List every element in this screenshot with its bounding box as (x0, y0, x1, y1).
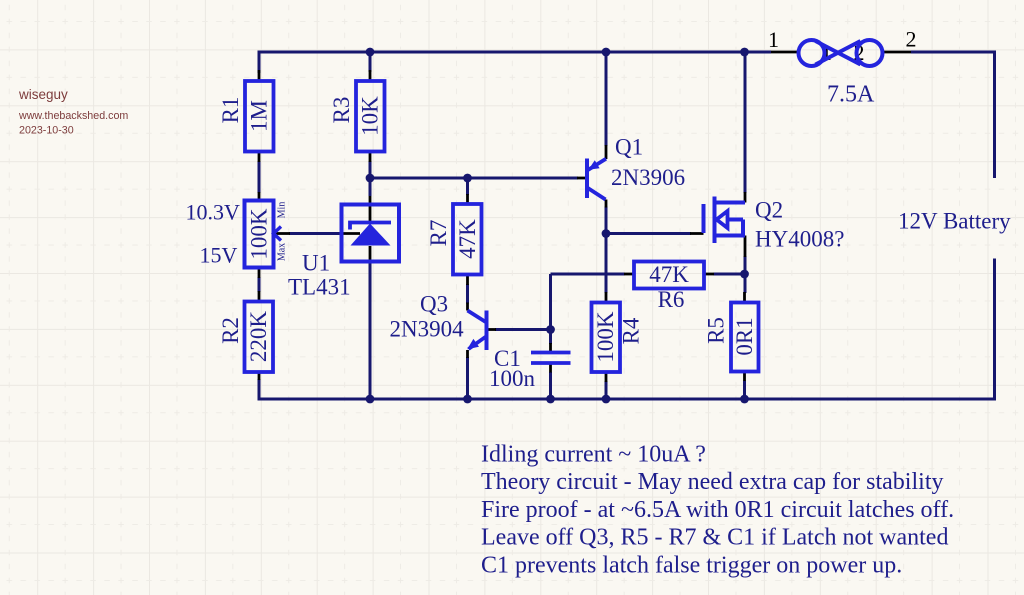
svg-text:R2: R2 (218, 317, 243, 344)
svg-text:U1: U1 (302, 251, 330, 276)
capacitor C1 (531, 353, 571, 364)
wire R1 bottom to pot top (258, 161, 261, 193)
wire top rail (259, 52, 771, 73)
wire U1 column top (369, 52, 372, 72)
svg-text:R7: R7 (426, 220, 451, 247)
wire C1 bottom to rail (549, 372, 552, 399)
pin stub R3 bottom (369, 152, 372, 163)
wire U1 bottom to bottom rail (369, 261, 372, 399)
svg-text:2023-10-30: 2023-10-30 (19, 125, 74, 137)
svg-text:47K: 47K (649, 262, 689, 287)
pin stub Q1 emitter (605, 145, 608, 159)
wire R4 bottom to rail (605, 381, 608, 399)
wire pot wiper to U1 ref (289, 232, 342, 235)
transistor Q3 2N3904 (467, 311, 486, 351)
wire top rail to Q2 drain (744, 52, 747, 193)
U1 cathode bar (350, 223, 391, 230)
svg-text:12V Battery: 12V Battery (898, 209, 1011, 234)
svg-text:Leave off Q3, R5 - R7 & C1 if: Leave off Q3, R5 - R7 & C1 if Latch not … (481, 525, 948, 551)
pin stub Q1 collector (605, 200, 608, 208)
svg-text:HY4008?: HY4008? (755, 227, 844, 252)
svg-text:wiseguy: wiseguy (18, 87, 68, 102)
svg-text:10.3V: 10.3V (186, 200, 241, 225)
junction dots (366, 48, 749, 404)
pin stub Q2 gate (690, 232, 704, 235)
pin stub R1 bottom (258, 152, 261, 163)
pin stub R4 top (605, 292, 608, 303)
transistor Q1 2N3906 (587, 159, 606, 200)
potentiometer body 100K (245, 201, 274, 268)
svg-text:Q2: Q2 (755, 198, 783, 223)
pin stub R5 top (743, 292, 746, 303)
wire Q1 collector to Q2 gate (606, 232, 691, 235)
pin stub U1 cathode (369, 196, 372, 222)
pin stub U1 anode (369, 246, 372, 262)
resistor R1 body (245, 81, 274, 152)
svg-text:www.thebackshed.com: www.thebackshed.com (18, 110, 128, 122)
pin stub Q3 base (487, 328, 496, 331)
svg-text:7.5A: 7.5A (827, 82, 875, 108)
pin stub R7 bottom (466, 275, 469, 286)
svg-text:2N3904: 2N3904 (390, 317, 465, 342)
pin stub R6 right (704, 273, 714, 276)
pin stub R7 top (466, 194, 469, 204)
op-amp U1 TL431 body (342, 205, 400, 262)
pin stub R2 top (258, 291, 261, 302)
svg-text:Max: Max (277, 243, 288, 261)
svg-text:1: 1 (768, 27, 779, 52)
wire Q2 source to R5 (744, 256, 747, 293)
pin stub C1 bottom (549, 364, 552, 373)
pin stub R6 left (624, 273, 634, 276)
pin stub R5 bottom (743, 371, 746, 381)
pin stub R1 top (258, 70, 261, 81)
svg-text:R1: R1 (218, 97, 243, 124)
wire C1 node to R6 left (551, 273, 625, 276)
wire Q1 collector down to R4 (605, 207, 608, 294)
svg-text:Q1: Q1 (615, 135, 643, 160)
wire battery bottom and bottom rail (259, 259, 995, 400)
pin stub R4 bottom (605, 372, 608, 383)
wire R6 right to Q2 source column (714, 273, 745, 276)
svg-text:2: 2 (906, 27, 917, 52)
svg-text:TL431: TL431 (288, 275, 351, 300)
wire Q3 emitter to bottom rail (466, 357, 469, 399)
pin stub pot bottom (258, 268, 261, 279)
svg-text:10K: 10K (358, 96, 383, 136)
svg-text:220K: 220K (246, 311, 271, 363)
resistor R5 body (731, 303, 759, 372)
wire C1 column (549, 274, 552, 344)
pin stub Q3 collector (466, 303, 469, 311)
svg-text:1M: 1M (247, 100, 272, 132)
svg-text:15V: 15V (200, 243, 238, 268)
resistor R2 body (245, 302, 274, 373)
svg-text:100K: 100K (593, 311, 618, 363)
svg-text:R6: R6 (658, 287, 685, 312)
wire Q1 emitter to top rail (605, 52, 608, 146)
svg-text:47K: 47K (455, 219, 480, 259)
svg-text:2N3906: 2N3906 (611, 165, 685, 190)
svg-text:C1 prevents latch false trigge: C1 prevents latch false trigger on power… (481, 552, 902, 578)
resistor R4 body (592, 303, 621, 373)
svg-text:R3: R3 (329, 97, 354, 124)
fuse F1 7.5A (799, 40, 883, 66)
svg-text:0R1: 0R1 (732, 317, 757, 355)
pin stub pot top (258, 192, 261, 201)
svg-text:Q3: Q3 (420, 292, 448, 317)
transistor Q2 MOSFET HY4008 (704, 197, 746, 244)
pin stub R3 top (369, 70, 372, 81)
resistor R7 body (453, 204, 482, 275)
resistor R3 body (356, 81, 385, 152)
wire R7 bottom to Q3 collector (466, 284, 469, 304)
svg-text:100K: 100K (247, 208, 272, 260)
potentiometer wiper arrow (274, 227, 282, 241)
svg-text:100n: 100n (489, 366, 536, 391)
wire R5 bottom to rail (743, 381, 746, 400)
pin stub fuse right (883, 51, 911, 54)
wire R7 top tee (466, 178, 469, 195)
resistor R6 body (634, 262, 704, 289)
svg-text:R4: R4 (619, 317, 644, 344)
pin stub pot wiper (276, 232, 290, 235)
pin stub C1 top (549, 343, 552, 352)
pin stub fuse left (771, 51, 800, 54)
svg-text:Idling current ~ 10uA ?: Idling current ~ 10uA ? (481, 442, 706, 468)
wire pot bottom to R2 top (258, 277, 261, 292)
svg-text:Fire proof - at ~6.5A with 0R1: Fire proof - at ~6.5A with 0R1 circuit l… (481, 497, 954, 523)
pin stub Q2 source (744, 236, 747, 258)
wire node row R3-Q1 base (370, 177, 578, 180)
pin stub R2 bottom (258, 372, 261, 381)
pin stub U1 ref (342, 232, 360, 235)
pin stub Q1 base (577, 177, 587, 180)
svg-text:R5: R5 (704, 317, 729, 344)
pin stub Q3 emitter (466, 350, 469, 358)
U1 triangle (351, 224, 391, 246)
wire R3 bottom to U1 top (369, 161, 372, 196)
pin stub Q2 drain (744, 192, 747, 203)
wire top rail right of fuse to battery top (911, 52, 995, 178)
svg-text:Min: Min (277, 202, 288, 219)
wire Q3 base to C1 node (495, 328, 551, 331)
svg-text:Theory circuit - May need extr: Theory circuit - May need extra cap for … (481, 469, 943, 495)
